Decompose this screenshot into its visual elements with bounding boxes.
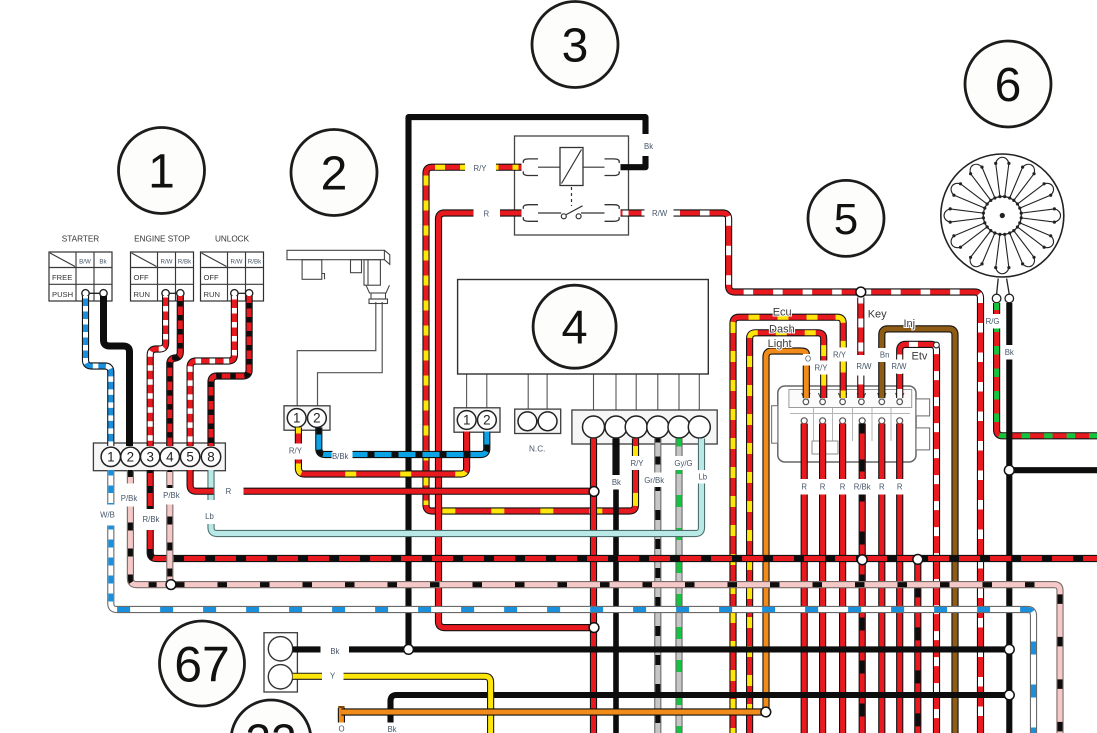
svg-text:FREE: FREE [52,273,72,282]
svg-text:67: 67 [174,636,230,692]
svg-text:Dash: Dash [769,323,795,335]
svg-text:R/W: R/W [230,259,242,266]
svg-text:6: 6 [995,59,1022,112]
svg-text:R/Bk: R/Bk [178,259,192,266]
svg-text:O: O [338,725,344,733]
svg-text:Bk: Bk [330,647,339,656]
svg-text:Lb: Lb [205,512,214,521]
svg-text:W/B: W/B [100,511,115,520]
svg-text:Lb: Lb [698,473,707,482]
svg-text:Gy/G: Gy/G [674,459,692,468]
svg-text:STARTER: STARTER [62,235,100,244]
svg-text:3: 3 [146,450,153,465]
svg-text:RUN: RUN [134,290,150,299]
svg-text:1: 1 [293,411,300,426]
svg-text:R/Bk: R/Bk [143,515,160,524]
svg-text:R: R [801,483,807,492]
svg-text:RUN: RUN [204,290,220,299]
svg-text:P/Bk: P/Bk [163,491,180,500]
svg-text:2: 2 [313,411,320,426]
svg-text:R/Y: R/Y [833,351,847,360]
svg-text:R/G: R/G [986,317,1000,326]
svg-text:R/W: R/W [652,209,668,218]
svg-text:R/Y: R/Y [474,164,488,173]
svg-text:1: 1 [107,450,114,465]
svg-text:N.C.: N.C. [529,445,545,454]
svg-text:R: R [879,483,885,492]
svg-text:3: 3 [562,20,589,73]
svg-text:Key: Key [868,309,887,321]
svg-text:22: 22 [245,714,296,733]
svg-text:R/W: R/W [856,362,872,371]
svg-text:R/Y: R/Y [289,447,303,456]
svg-text:ENGINE STOP: ENGINE STOP [134,235,190,244]
svg-text:R: R [226,487,232,496]
svg-text:R/Y: R/Y [815,364,829,373]
svg-text:Bk: Bk [387,725,396,733]
svg-text:Y: Y [330,672,336,681]
svg-text:4: 4 [562,300,588,353]
svg-text:4: 4 [166,450,174,465]
svg-text:1: 1 [148,146,175,199]
svg-text:8: 8 [207,450,214,465]
svg-text:5: 5 [186,450,193,465]
svg-text:Bk: Bk [644,142,653,151]
svg-text:5: 5 [834,195,858,244]
svg-text:OFF: OFF [204,273,220,282]
svg-text:PUSH: PUSH [52,290,73,299]
svg-text:2: 2 [321,148,348,201]
svg-text:R/Bk: R/Bk [854,483,871,492]
svg-text:R/Y: R/Y [631,459,645,468]
svg-text:R/W: R/W [160,259,172,266]
svg-text:UNLOCK: UNLOCK [215,235,250,244]
svg-text:B/W: B/W [79,259,91,266]
svg-text:2: 2 [127,450,134,465]
svg-text:R: R [897,483,903,492]
svg-text:Bk: Bk [612,478,621,487]
svg-text:R/W: R/W [891,362,907,371]
svg-text:2: 2 [483,413,490,428]
svg-text:Gr/Bk: Gr/Bk [644,476,664,485]
svg-text:R: R [483,210,489,219]
svg-text:P/Bk: P/Bk [121,494,138,503]
svg-text:Bk: Bk [99,259,107,266]
svg-text:OFF: OFF [134,273,150,282]
svg-text:Light: Light [768,338,792,350]
svg-text:1: 1 [463,413,470,428]
svg-text:B/Bk: B/Bk [332,452,349,461]
svg-text:R/Bk: R/Bk [248,259,262,266]
svg-text:Ecu: Ecu [773,307,792,319]
svg-text:Etv: Etv [912,351,928,363]
svg-text:Bn: Bn [880,351,890,360]
svg-text:R: R [840,483,846,492]
svg-text:O: O [805,355,811,364]
svg-text:R: R [820,483,826,492]
svg-text:Bk: Bk [1005,348,1014,357]
svg-text:Inj: Inj [903,318,915,330]
